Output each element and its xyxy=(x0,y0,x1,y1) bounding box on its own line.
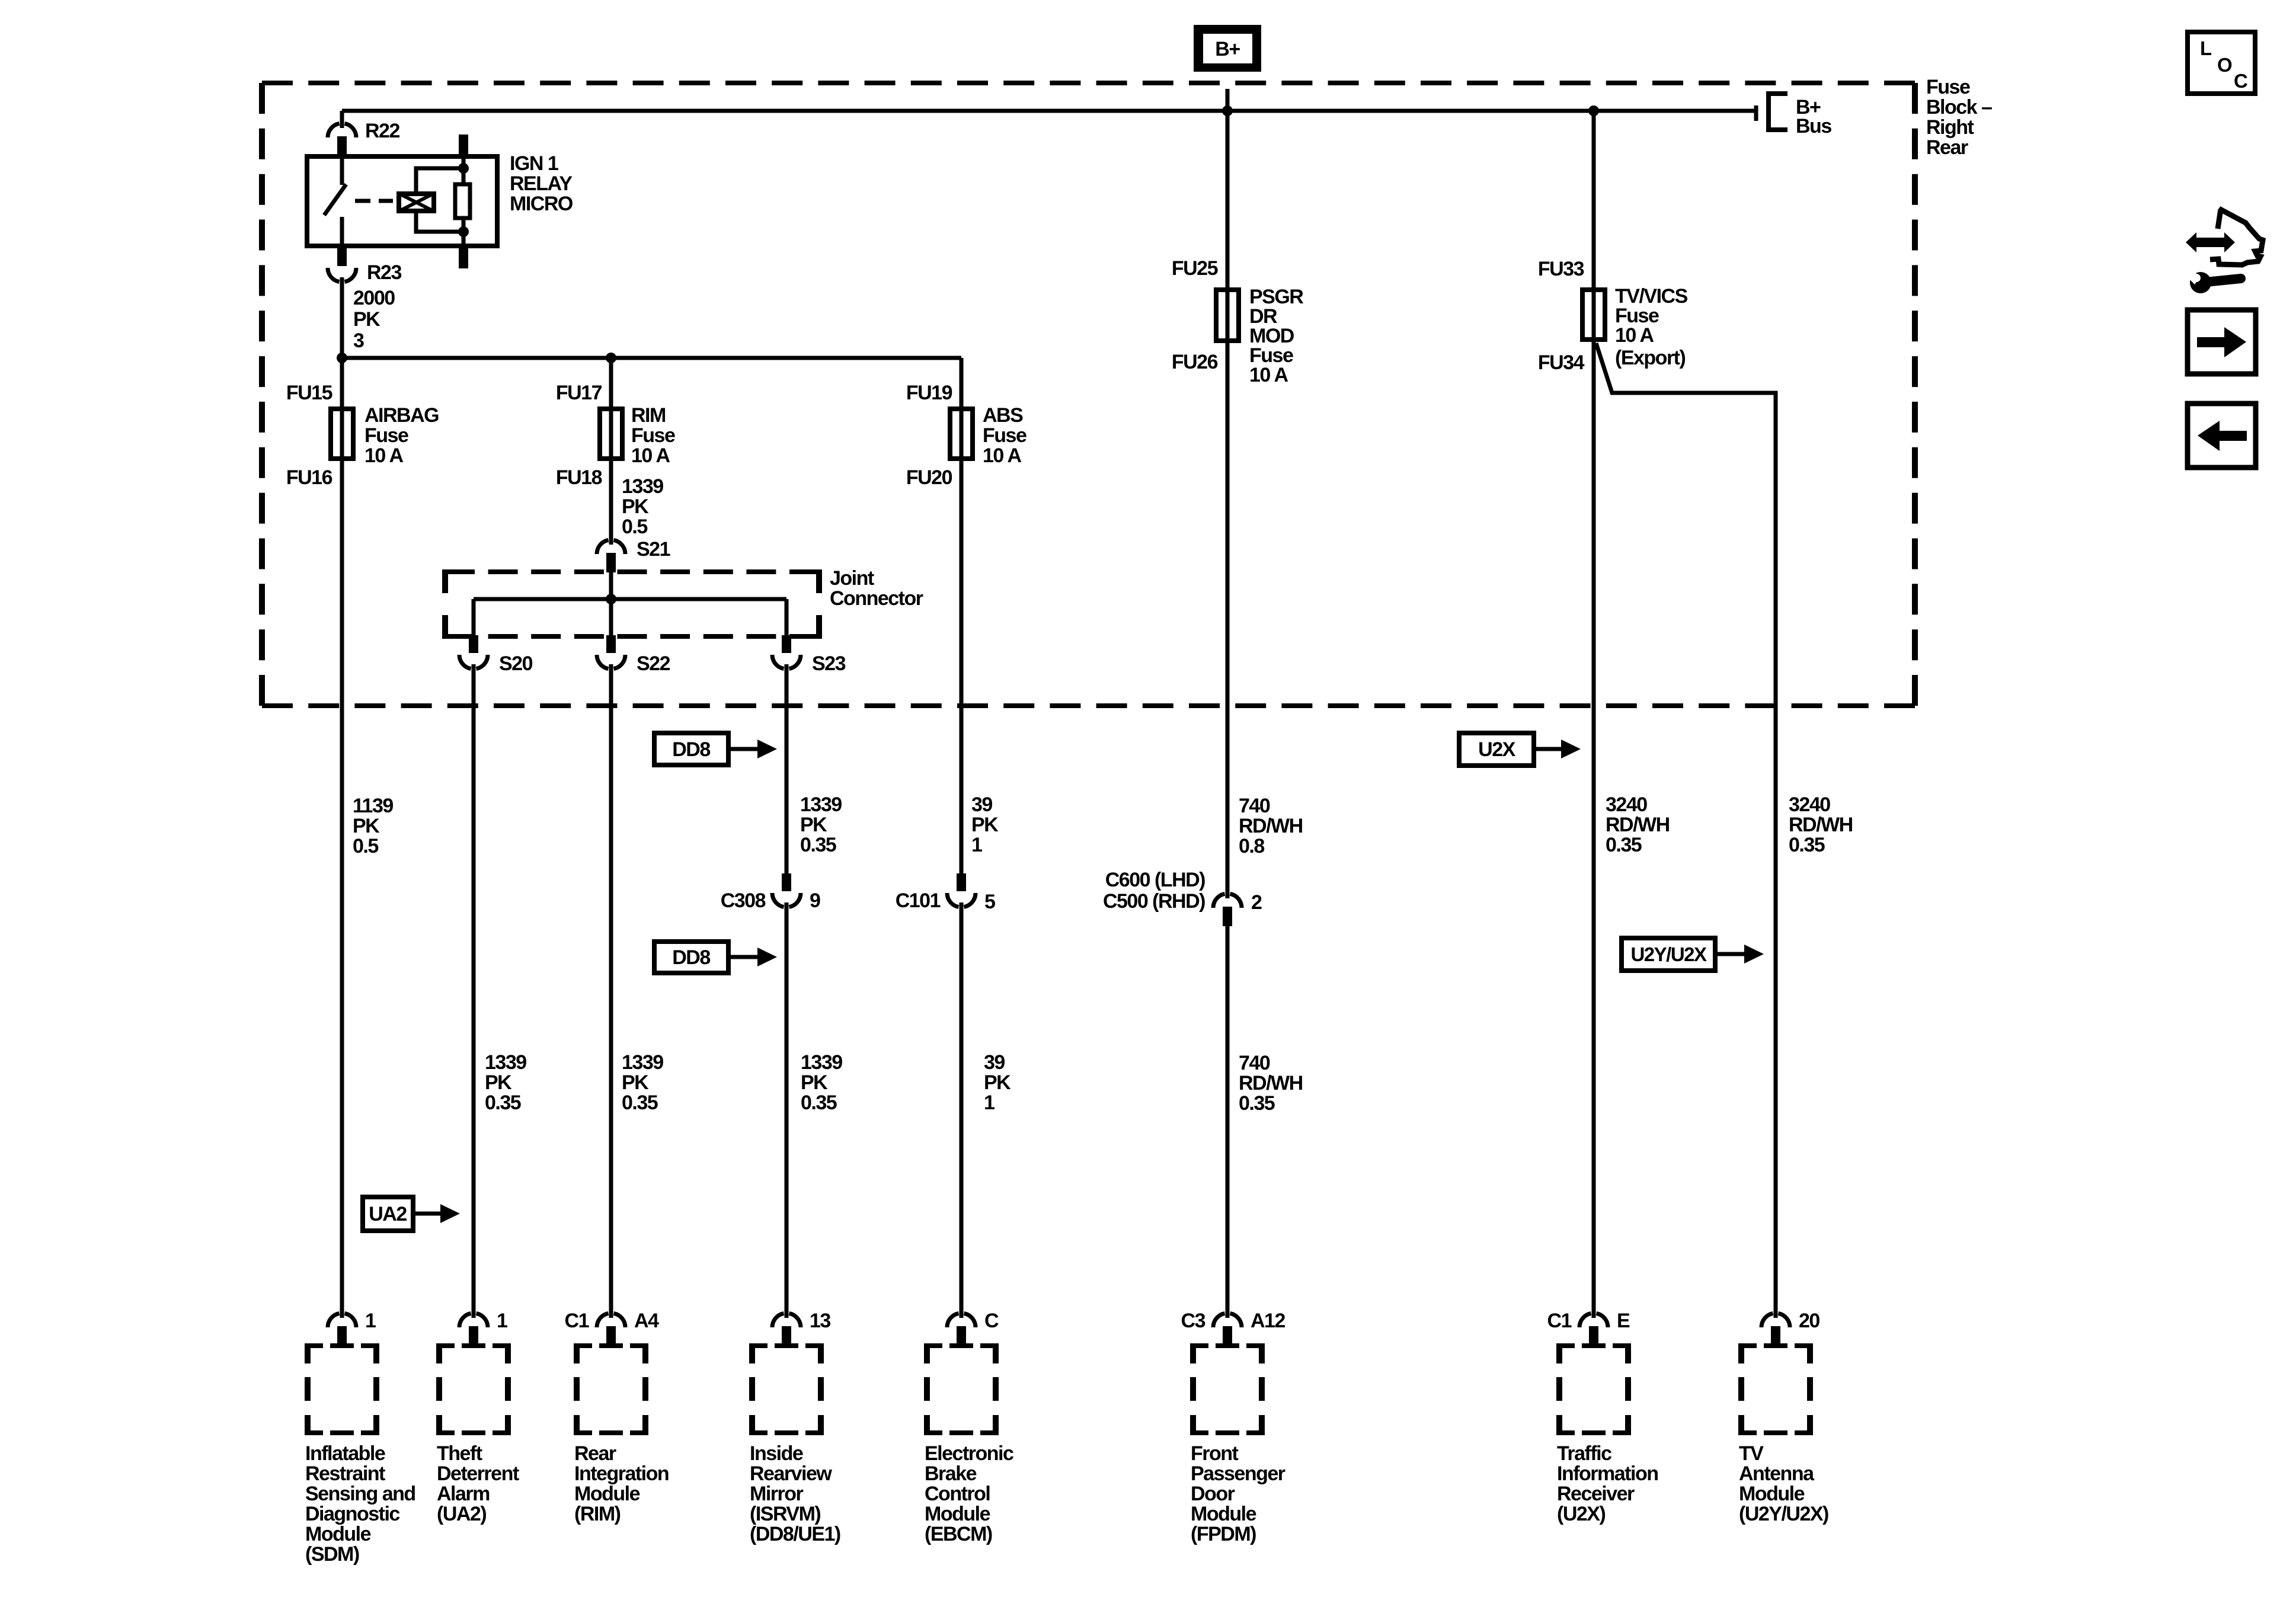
wire joint connector internal bus xyxy=(474,597,786,601)
junction node FU17 branch xyxy=(606,353,616,363)
svg-text:0.5: 0.5 xyxy=(353,835,378,857)
svg-text:Alarm: Alarm xyxy=(437,1483,490,1505)
svg-text:Fuse: Fuse xyxy=(983,424,1027,447)
connector C308 pin 9 xyxy=(782,873,791,891)
LOC legend box xyxy=(2188,32,2255,94)
svg-text:Receiver: Receiver xyxy=(1557,1483,1635,1505)
svg-text:1139: 1139 xyxy=(353,795,393,817)
svg-text:Fuse: Fuse xyxy=(364,424,408,447)
svg-text:A12: A12 xyxy=(1251,1310,1285,1332)
joint connector dashed box xyxy=(445,569,819,574)
relay K: IGN 1 RELAY MICRO box xyxy=(307,156,497,246)
svg-text:FU26: FU26 xyxy=(1172,351,1218,373)
wire R23 down to junction xyxy=(340,281,344,358)
svg-text:TV: TV xyxy=(1739,1442,1764,1465)
wire FU16 down to SDM xyxy=(340,461,344,1314)
svg-text:Electronic: Electronic xyxy=(925,1442,1013,1465)
svg-text:0.5: 0.5 xyxy=(622,516,647,538)
svg-text:Information: Information xyxy=(1557,1462,1658,1485)
svg-text:Restraint: Restraint xyxy=(305,1462,385,1485)
svg-text:10 A: 10 A xyxy=(983,444,1022,467)
svg-text:RD/WH: RD/WH xyxy=(1789,814,1853,836)
wire drop to S20 xyxy=(472,599,476,636)
wire C600 down to FPDM xyxy=(1226,926,1230,1314)
svg-text:FU34: FU34 xyxy=(1538,351,1585,374)
svg-text:RIM: RIM xyxy=(631,404,666,427)
svg-text:C308: C308 xyxy=(721,889,766,912)
connector pin E at U2X receiver xyxy=(1579,1313,1591,1327)
svg-text:(SDM): (SDM) xyxy=(305,1543,359,1566)
splice S22 xyxy=(606,635,616,653)
svg-text:UA2: UA2 xyxy=(369,1203,407,1225)
wire C101 down to EBCM xyxy=(960,906,964,1314)
wire FU20 down to C101 xyxy=(960,461,964,875)
svg-text:39: 39 xyxy=(984,1051,1005,1074)
junction node joint connector xyxy=(606,594,616,604)
svg-text:0.35: 0.35 xyxy=(622,1092,658,1114)
svg-text:C600 (LHD): C600 (LHD) xyxy=(1105,869,1205,891)
svg-text:(Export): (Export) xyxy=(1615,347,1686,369)
svg-text:9: 9 xyxy=(810,889,820,912)
svg-text:20: 20 xyxy=(1799,1310,1819,1332)
svg-text:Module: Module xyxy=(1739,1483,1805,1505)
svg-text:PK: PK xyxy=(800,814,827,836)
svg-text:1: 1 xyxy=(984,1092,994,1114)
svg-text:3: 3 xyxy=(353,329,364,352)
svg-text:PK: PK xyxy=(984,1071,1011,1094)
svg-text:A4: A4 xyxy=(634,1310,659,1332)
svg-text:Rear: Rear xyxy=(1926,136,1968,159)
arrow box to next page xyxy=(2188,310,2256,374)
svg-text:(EBCM): (EBCM) xyxy=(925,1523,992,1545)
module box U2X receiver xyxy=(1556,1346,1631,1433)
svg-text:FU19: FU19 xyxy=(906,382,952,404)
connector pin A4 at RIM xyxy=(597,1313,609,1327)
svg-text:U2X: U2X xyxy=(1478,738,1515,761)
svg-text:(RIM): (RIM) xyxy=(574,1503,621,1525)
svg-text:3240: 3240 xyxy=(1789,793,1830,816)
arrow box from previous page xyxy=(2188,404,2256,468)
module box RIM xyxy=(574,1346,648,1433)
svg-text:1: 1 xyxy=(365,1310,376,1332)
svg-text:3240: 3240 xyxy=(1606,793,1647,816)
svg-text:PK: PK xyxy=(622,495,649,518)
svg-text:Integration: Integration xyxy=(574,1462,669,1485)
svg-text:Bus: Bus xyxy=(1796,115,1831,137)
svg-text:10 A: 10 A xyxy=(364,444,404,467)
module box EBCM xyxy=(924,1346,999,1433)
svg-text:PK: PK xyxy=(971,814,999,836)
svg-text:E: E xyxy=(1617,1310,1630,1332)
connector pin 13 at ISRVM xyxy=(772,1313,784,1327)
svg-text:IGN 1: IGN 1 xyxy=(510,152,558,175)
svg-text:Fuse: Fuse xyxy=(631,424,675,447)
svg-text:1: 1 xyxy=(971,834,982,856)
svg-text:(FPDM): (FPDM) xyxy=(1191,1523,1256,1545)
svg-text:0.35: 0.35 xyxy=(1606,834,1642,856)
wire bus to FU25 xyxy=(1226,111,1230,345)
wire FU18 down to S21 xyxy=(609,461,613,540)
junction node at FPDM feed xyxy=(1222,105,1233,116)
wire coil bottom loop xyxy=(416,213,463,232)
svg-text:(ISRVM): (ISRVM) xyxy=(750,1503,820,1525)
svg-text:Inflatable: Inflatable xyxy=(305,1442,385,1465)
flag U2Y/U2X xyxy=(1622,938,1715,971)
relay actuator dashed link xyxy=(355,199,393,203)
junction node coil/resistor top xyxy=(458,163,469,174)
svg-text:1339: 1339 xyxy=(622,475,663,498)
svg-text:PK: PK xyxy=(353,308,380,331)
svg-text:S23: S23 xyxy=(812,652,846,675)
module box SDM xyxy=(305,1346,379,1433)
svg-text:(U2X): (U2X) xyxy=(1557,1503,1605,1525)
relay resistor xyxy=(462,155,466,183)
module box FPDM xyxy=(1190,1346,1265,1433)
connector pin A12 at FPDM xyxy=(1213,1313,1225,1327)
wire horizontal fuse feed xyxy=(342,356,961,360)
wire B+ bus horizontal xyxy=(342,109,1756,113)
svg-text:S20: S20 xyxy=(499,652,533,675)
svg-text:Control: Control xyxy=(925,1483,990,1505)
fuse FU33/FU34 TV/VICS xyxy=(1582,290,1605,340)
svg-text:RD/WH: RD/WH xyxy=(1239,1072,1303,1094)
svg-text:FU17: FU17 xyxy=(556,382,602,404)
double arrow of vehicle icon xyxy=(2186,232,2235,252)
svg-text:O: O xyxy=(2217,54,2232,76)
svg-text:Rearview: Rearview xyxy=(750,1462,832,1485)
svg-text:U2Y/U2X: U2Y/U2X xyxy=(1630,943,1707,965)
connector C101 pin 5 xyxy=(957,873,966,891)
svg-text:1339: 1339 xyxy=(622,1051,663,1074)
svg-text:C1: C1 xyxy=(1547,1310,1572,1332)
B+ power terminal xyxy=(1194,25,1261,72)
svg-text:FU20: FU20 xyxy=(906,466,952,489)
svg-text:0.35: 0.35 xyxy=(485,1092,521,1114)
svg-text:10 A: 10 A xyxy=(1249,364,1288,386)
svg-text:1: 1 xyxy=(497,1310,507,1332)
junction node feed bus xyxy=(337,353,347,363)
svg-text:5: 5 xyxy=(984,891,995,913)
wire junction to FU15 xyxy=(340,358,344,463)
svg-text:0.35: 0.35 xyxy=(801,1092,837,1114)
svg-text:Connector: Connector xyxy=(830,587,923,610)
wire drop to S22 xyxy=(609,599,613,636)
svg-text:PK: PK xyxy=(622,1071,649,1094)
connector R23 xyxy=(337,248,347,266)
relay pin stub bottom xyxy=(459,248,468,268)
svg-text:MICRO: MICRO xyxy=(510,193,573,215)
svg-text:DD8: DD8 xyxy=(672,946,710,969)
svg-text:1339: 1339 xyxy=(800,793,842,816)
splice S21 xyxy=(597,540,609,554)
connector pin 20 at TV antenna xyxy=(1761,1313,1773,1327)
wire C308 down to ISRVM xyxy=(785,906,789,1314)
svg-text:1339: 1339 xyxy=(801,1051,842,1074)
svg-text:RD/WH: RD/WH xyxy=(1606,814,1670,836)
wire S22 down to RIM xyxy=(609,669,613,1314)
svg-text:PK: PK xyxy=(485,1071,512,1094)
wire FU26 down to C600 xyxy=(1226,343,1230,894)
connector pin 1 at SDM xyxy=(328,1313,340,1327)
svg-text:Block –: Block – xyxy=(1926,96,1992,119)
connector C600 (LHD) C500 (RHD) pin 2 xyxy=(1213,894,1225,908)
connector pin 1 at UA2 xyxy=(459,1313,471,1327)
svg-text:RD/WH: RD/WH xyxy=(1239,815,1303,837)
svg-text:Inside: Inside xyxy=(750,1442,803,1465)
svg-text:FU25: FU25 xyxy=(1172,257,1218,280)
wire drop to S23 xyxy=(785,599,789,636)
svg-text:Mirror: Mirror xyxy=(750,1483,804,1505)
svg-text:(DD8/UE1): (DD8/UE1) xyxy=(750,1523,840,1545)
wire junction to FU19 xyxy=(960,358,964,463)
svg-text:Fuse: Fuse xyxy=(1926,76,1970,98)
svg-text:S22: S22 xyxy=(637,652,670,675)
wire FU34 jog to TV antenna branch xyxy=(1596,343,1776,1314)
svg-text:R23: R23 xyxy=(367,261,401,284)
svg-text:740: 740 xyxy=(1239,795,1270,817)
wire bus to R22 xyxy=(340,111,344,124)
svg-text:Door: Door xyxy=(1191,1483,1235,1505)
svg-text:L: L xyxy=(2200,37,2212,59)
wire S20 down to Theft Deterrent Alarm xyxy=(472,669,476,1314)
svg-text:FU15: FU15 xyxy=(286,382,332,404)
svg-text:PK: PK xyxy=(353,815,380,837)
relay pin stub top xyxy=(459,135,468,155)
svg-text:Diagnostic: Diagnostic xyxy=(305,1503,399,1525)
wire S23 down to C308 xyxy=(785,669,789,875)
svg-text:0.35: 0.35 xyxy=(800,834,836,856)
svg-text:10 A: 10 A xyxy=(1615,324,1654,347)
svg-text:FU18: FU18 xyxy=(556,466,602,489)
svg-text:C101: C101 xyxy=(896,889,941,912)
relay switch contact xyxy=(340,154,344,185)
svg-text:740: 740 xyxy=(1239,1052,1270,1074)
relay coil xyxy=(399,194,434,211)
svg-text:Rear: Rear xyxy=(574,1442,616,1465)
wire S21 into joint connector xyxy=(609,572,613,599)
svg-text:AIRBAG: AIRBAG xyxy=(364,404,439,427)
svg-text:Front: Front xyxy=(1191,1442,1239,1465)
svg-text:FU33: FU33 xyxy=(1538,258,1584,280)
wrench of vehicle icon xyxy=(2206,279,2241,282)
flag DD8 upper xyxy=(654,733,728,765)
svg-text:2000: 2000 xyxy=(353,287,395,309)
fuse FU17/FU18 RIM xyxy=(600,409,622,459)
svg-text:0.35: 0.35 xyxy=(1239,1092,1275,1115)
svg-text:Module: Module xyxy=(574,1483,640,1505)
wire coil top loop xyxy=(416,168,463,191)
svg-text:S21: S21 xyxy=(637,538,670,561)
svg-text:Brake: Brake xyxy=(925,1462,977,1485)
svg-text:Module: Module xyxy=(305,1523,371,1545)
connector pin C at EBCM xyxy=(947,1313,959,1327)
svg-text:Sensing and: Sensing and xyxy=(305,1483,415,1505)
svg-text:Passenger: Passenger xyxy=(1191,1462,1285,1485)
wire junction to FU17 xyxy=(609,358,613,463)
svg-text:Antenna: Antenna xyxy=(1739,1462,1815,1485)
flag DD8 lower xyxy=(654,942,728,973)
svg-text:C500 (RHD): C500 (RHD) xyxy=(1103,890,1205,913)
svg-text:39: 39 xyxy=(971,793,992,816)
connector R22 xyxy=(328,123,340,137)
wire B+ feed drop xyxy=(1226,89,1230,111)
fuse block - right rear dashed border xyxy=(262,81,1915,85)
svg-text:(UA2): (UA2) xyxy=(437,1503,486,1525)
svg-text:C: C xyxy=(984,1310,999,1332)
flag U2X xyxy=(1459,733,1534,766)
svg-text:R22: R22 xyxy=(365,120,399,142)
svg-text:C3: C3 xyxy=(1181,1310,1205,1332)
B+ Bus terminal bracket xyxy=(1754,105,1758,121)
svg-text:2: 2 xyxy=(1251,891,1262,914)
splice S20 xyxy=(469,635,478,653)
svg-text:Module: Module xyxy=(925,1503,990,1525)
module box UA2 xyxy=(436,1346,511,1433)
svg-text:13: 13 xyxy=(810,1310,830,1332)
fuse FU19/FU20 ABS xyxy=(950,409,973,459)
svg-text:C1: C1 xyxy=(565,1310,589,1332)
svg-text:Module: Module xyxy=(1191,1503,1256,1525)
svg-text:1339: 1339 xyxy=(485,1051,526,1074)
junction node coil/resistor bottom xyxy=(458,226,469,237)
svg-text:C: C xyxy=(2234,70,2247,92)
module box ISRVM xyxy=(749,1346,824,1433)
wire FU34 down to Traffic Information Receiver xyxy=(1592,342,1596,1314)
svg-text:(U2Y/U2X): (U2Y/U2X) xyxy=(1739,1503,1828,1525)
svg-text:Traffic: Traffic xyxy=(1557,1442,1611,1465)
vehicle power/signal icon xyxy=(2218,209,2221,229)
wire bus to FU33 xyxy=(1592,111,1596,344)
svg-text:10 A: 10 A xyxy=(631,444,670,467)
flag UA2 xyxy=(363,1197,413,1231)
svg-text:ABS: ABS xyxy=(983,404,1023,427)
svg-text:0.8: 0.8 xyxy=(1239,835,1264,857)
fuse FU15/FU16 AIRBAG xyxy=(331,409,353,459)
svg-text:PK: PK xyxy=(801,1071,828,1094)
junction node at TV/VICS feed xyxy=(1588,105,1599,116)
svg-text:Theft: Theft xyxy=(437,1442,482,1465)
svg-text:0.35: 0.35 xyxy=(1789,834,1825,856)
svg-text:Deterrent: Deterrent xyxy=(437,1462,519,1485)
svg-text:FU16: FU16 xyxy=(286,466,332,489)
module box TV antenna xyxy=(1738,1346,1813,1433)
splice S23 xyxy=(782,635,791,653)
fuse FU25/FU26 PSGR DR MOD xyxy=(1216,290,1239,341)
svg-text:RELAY: RELAY xyxy=(510,172,573,195)
svg-text:DD8: DD8 xyxy=(672,738,710,761)
svg-text:Right: Right xyxy=(1926,116,1974,139)
svg-text:Joint: Joint xyxy=(830,567,874,590)
svg-text:B+: B+ xyxy=(1215,38,1240,60)
